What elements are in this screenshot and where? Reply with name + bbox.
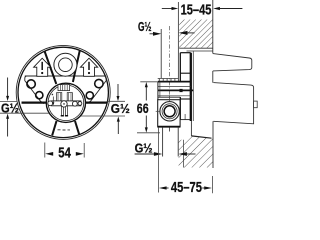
svg-text:G½: G½: [138, 19, 152, 34]
cold-side warning arrow (right, with !): [80, 58, 97, 76]
void edge under flange: [190, 121, 192, 136]
valve mechanism: left stub circle: [48, 101, 53, 106]
lower hatch: wall section below valve: [179, 136, 214, 167]
down pipe edges: [162, 127, 164, 156]
body top edge: [158, 81, 191, 83]
svg-text:54: 54: [58, 144, 71, 161]
dimension 45-75: [159, 186, 167, 189]
valve mechanism: right circles: [73, 101, 78, 106]
45-75 right extension line: [211, 176, 213, 193]
set screw nub on flange: [180, 89, 183, 92]
bottom sector spoke left: [52, 121, 56, 135]
dimension 54: extension lines: [44, 143, 46, 158]
port box centreline ticks: [168, 95, 170, 101]
centreline (dash-dot): [169, 26, 171, 133]
body internal lines: [158, 86, 191, 88]
top sector spoke left: [45, 51, 57, 84]
mounting plate top edge: [25, 75, 106, 77]
dimension 54: arrows: [45, 152, 53, 156]
svg-text:G½: G½: [111, 101, 130, 116]
plate hole bottom-left: [36, 92, 43, 99]
valve mechanism: lower legs: [61, 106, 68, 117]
inner housing circle (double): [46, 83, 85, 122]
top hatch bottom edge: [179, 47, 213, 49]
bottom sector spoke right: [75, 121, 79, 135]
thread ticks on top: [159, 79, 175, 81]
line above flange to wall: [187, 50, 213, 52]
centreline tick below box: [168, 127, 170, 131]
svg-text:66: 66: [137, 100, 149, 116]
right G1/2 arrow up: [117, 121, 119, 134]
riser pipe left edge: [160, 29, 162, 78]
finished wall face / riser pipe right edge / 15-45 ext line: [177, 2, 179, 81]
plate hole top-right: [95, 79, 103, 87]
body front face: [157, 82, 159, 100]
plate hole top-left: [27, 80, 35, 88]
svg-text:G½: G½: [1, 101, 19, 116]
raw wall face (lower): [212, 121, 214, 168]
top hatch: finished wall section: [179, 20, 213, 49]
in-wall bottom piece: [213, 83, 253, 124]
right G1/2 arrow down: [117, 84, 119, 96]
hot-side warning arrow (left, with !): [34, 58, 51, 76]
outer flange circle (double ring): [16, 45, 110, 139]
mounting plate right outline: [87, 76, 106, 103]
top function ring: [54, 53, 77, 76]
plaster slope line: [191, 136, 211, 138]
valve mechanism: posts: [57, 93, 73, 101]
in-wall box front edge: [192, 51, 194, 121]
valve mechanism: small flow arrow: [52, 97, 54, 103]
valve mechanism: cross bar: [52, 101, 81, 106]
right inlet port line: [85, 101, 107, 103]
left G1/2 arrow down: [7, 78, 9, 97]
left G1/2 annotation: extension lines: [0, 100, 18, 102]
right G1/2 annotation: extension lines: [107, 100, 125, 102]
raw wall face between pieces: [212, 71, 214, 83]
svg-text:15–45: 15–45: [181, 2, 212, 18]
dimension 15-45: [162, 8, 173, 10]
valve mechanism: centre circle: [61, 101, 67, 107]
left G1/2 arrow up: [7, 118, 9, 136]
mounting plate left outline: [25, 76, 44, 104]
45-75 left extension line: [158, 127, 160, 192]
outlet port circles: [160, 102, 179, 121]
in-wall top tapered piece: [213, 54, 252, 71]
flange plate: [179, 53, 181, 82]
valve mechanism: top ribbed cap: [58, 85, 70, 91]
outlet port box: [158, 100, 180, 127]
left inlet port line: [22, 101, 47, 103]
dimension 66: [140, 81, 158, 83]
top sector spoke right: [73, 50, 80, 82]
svg-text:45–75: 45–75: [171, 180, 202, 196]
svg-text:G½: G½: [135, 141, 153, 156]
bottom sector dashes: [58, 129, 71, 131]
nub on bottom piece: [254, 101, 258, 108]
raw wall face line (upper): [212, 0, 214, 54]
plate hole bottom-right: [86, 92, 93, 99]
lower hatch left edge: [182, 140, 184, 168]
